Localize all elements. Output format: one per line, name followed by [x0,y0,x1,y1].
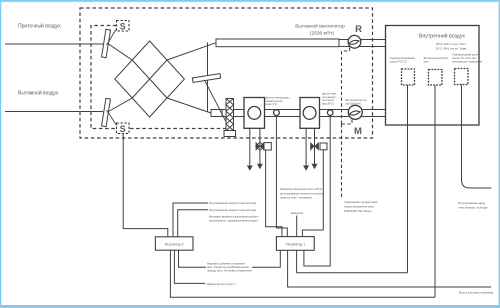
svg-text:(около 76-1°С): (около 76-1°С) [390,60,408,64]
svg-text:переустановления темп.: переустановления темп. [344,206,375,209]
svg-text:Индикатор режима отопления: Индикатор режима отопления [207,261,245,265]
svg-text:(2500 м³/ч): (2500 м³/ч) [310,31,334,37]
svg-text:S: S [120,124,126,134]
svg-text:S: S [120,21,126,31]
svg-text:Регулятор 2: Регулятор 2 [165,243,184,247]
svg-text:Регулирование перед: Регулирование перед [458,201,485,205]
svg-text:Индикатор включения сети (+40°: Индикатор включения сети (+40°С) [280,187,323,191]
svg-text:(регулирование насосного конту: (регулирование насосного контура) [280,191,323,195]
svg-text:Датчик качества/CO: Датчик качества/CO [424,56,448,60]
svg-text:Внутренний воздух: Внутренний воздух [419,33,465,40]
svg-text:Интервал времени разрешения ра: Интервал времени разрешения работы [209,215,259,219]
svg-text:R: R [355,24,362,35]
svg-text:Вытяжной вентилятор: Вытяжной вентилятор [295,23,345,30]
svg-text:температуре помещения: температуре помещения [452,61,483,64]
svg-text:1000/1500-750 об/мин: 1000/1500-750 об/мин [344,209,372,213]
svg-text:Индикатор регулятор 1: Индикатор регулятор 1 [207,282,236,286]
svg-text:M: M [354,126,362,137]
svg-text:Регулятор 1: Регулятор 1 [286,243,305,247]
svg-text:26°C, 40% отн.вл. Лето: 26°C, 40% отн.вл. Лето [436,42,466,46]
svg-text:Регулирование скорости вентиля: Регулирование скорости вентилятора [209,208,257,212]
svg-text:Содержание передатчиков: Содержание передатчиков [344,200,378,204]
svg-text:Терморегулирование: Терморегулирование [390,56,416,60]
svg-text:Реверсор: Реверсор [291,211,304,215]
svg-text:датч.: датч. [424,61,430,64]
svg-text:Приточный воздух: Приточный воздух [18,23,61,30]
svg-text:вход (6°С): вход (6°С) [322,102,334,105]
svg-text:тор (500 м³/ч): тор (500 м³/ч) [345,102,361,105]
svg-text:вход (1°С): вход (1°С) [266,103,278,106]
svg-text:Вход к насосам и клапанам: Вход к насосам и клапанам [459,291,493,295]
svg-text:(около/занято, удержание венти: (около/занято, удержание вентиляции) [209,219,258,223]
svg-text:Температурный датчик: Температурный датчик [452,53,481,57]
svg-text:Регулирование скорости вентиля: Регулирование скорости вентилятора [209,201,257,205]
svg-text:Вытяжной воздух: Вытяжной воздух [18,90,59,97]
svg-text:период быть. Интервал управлен: период быть. Интервал управления [207,269,252,273]
svg-text:(около 76-+4°С) при: (около 76-+4°С) при [452,56,477,60]
svg-text:темп./интерф. на входе: темп./интерф. на входе [458,206,488,210]
svg-text:(вкл. общий контур)/Режим жизн: (вкл. общий контур)/Режим жизни [207,265,250,269]
svg-text:примочь блок - положение: примочь блок - положение [280,196,312,200]
svg-text:20°C, 40% отн.вл. Зима: 20°C, 40% отн.вл. Зима [436,47,467,51]
